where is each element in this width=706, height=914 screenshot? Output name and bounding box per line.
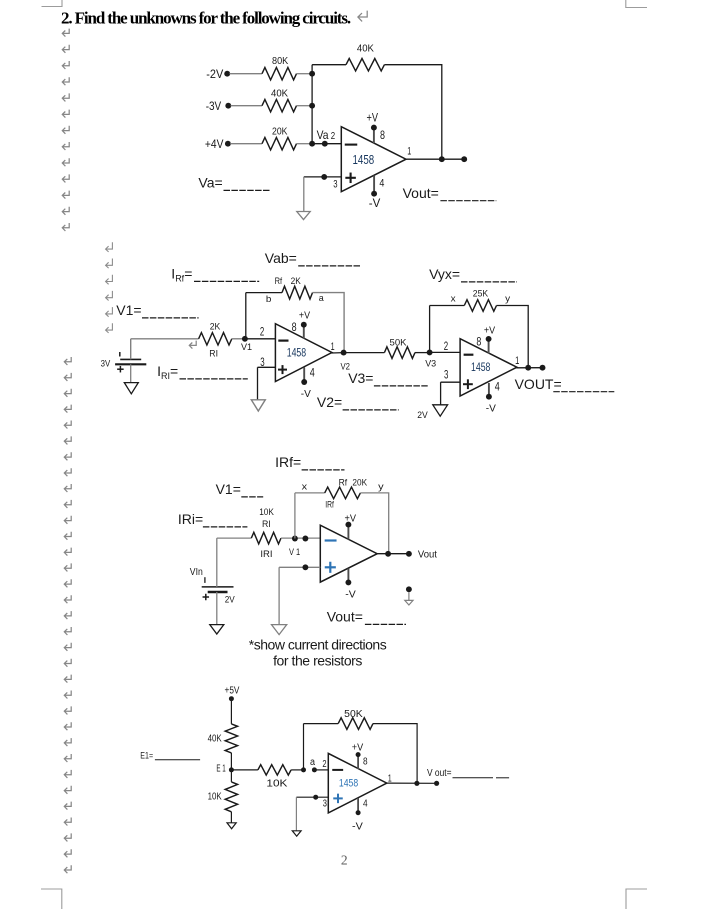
wire Vin to RI circuit3 bbox=[217, 537, 252, 539]
node feedback junction U3 bbox=[525, 365, 531, 371]
svg-text:80K: 80K bbox=[272, 56, 288, 67]
svg-text:V3=: V3= bbox=[348, 370, 373, 386]
svg-text:-3V: -3V bbox=[206, 99, 222, 113]
wire output U2 to V2 bbox=[332, 352, 344, 354]
page corner mark bottom-right bbox=[626, 889, 647, 909]
resistor R3 20K bbox=[262, 138, 297, 150]
ground pin3 U5 bbox=[292, 831, 301, 836]
svg-text:y: y bbox=[378, 481, 384, 492]
node V2 bbox=[341, 350, 347, 356]
svg-text:8: 8 bbox=[476, 337, 481, 349]
wire V2 to R 50K bbox=[344, 352, 385, 354]
wire +4V to R3 bbox=[230, 143, 262, 145]
wire pin3 U3 bbox=[441, 381, 461, 383]
wire feedback right U3 bbox=[497, 306, 529, 368]
battery Vin plus label bbox=[203, 596, 210, 598]
ground battery Vin bbox=[210, 625, 224, 634]
wire plus input circuit3 bbox=[279, 566, 320, 568]
svg-text:4: 4 bbox=[310, 368, 315, 380]
node plus input circuit3 bbox=[302, 564, 308, 570]
svg-text:VIn: VIn bbox=[190, 567, 203, 578]
page corner mark bottom-left bbox=[41, 889, 62, 909]
svg-text:-V: -V bbox=[352, 822, 363, 833]
svg-text:V1=: V1= bbox=[116, 302, 141, 318]
node +5V terminal bbox=[229, 696, 234, 701]
wire E1 to R4 10K bbox=[231, 769, 258, 771]
svg-text:1458: 1458 bbox=[287, 348, 307, 360]
svg-text:x: x bbox=[302, 481, 308, 492]
svg-text:2: 2 bbox=[341, 853, 348, 868]
node junction row2 bbox=[309, 103, 315, 109]
svg-text:+V: +V bbox=[367, 110, 379, 124]
node -2V input terminal bbox=[224, 71, 230, 77]
op-amp U4 bbox=[320, 525, 377, 582]
node +4V input terminal bbox=[225, 141, 231, 147]
pin 8 +V stub U1 bbox=[373, 129, 375, 143]
resistor R1 80K bbox=[262, 68, 297, 80]
svg-text:2: 2 bbox=[331, 130, 336, 142]
ground plus input circuit3 bbox=[272, 625, 287, 635]
resistor 40K circuit4 bbox=[225, 724, 237, 753]
svg-text:3: 3 bbox=[444, 370, 448, 382]
op-amp U4 minus sign bbox=[325, 539, 337, 541]
node +V pin8 U1 bbox=[371, 125, 377, 131]
node +V U5 bbox=[356, 752, 361, 757]
wire feedback right circuit3 bbox=[360, 493, 388, 554]
svg-text:V1=: V1= bbox=[216, 481, 241, 497]
node -V U5 bbox=[356, 810, 361, 815]
svg-text:2. Find the unknowns for the f: 2. Find the unknowns for the following c… bbox=[61, 8, 351, 27]
node output terminal circuit4 bbox=[434, 781, 439, 786]
op-amp U5 plus sign bbox=[333, 797, 343, 799]
pin 4 -V stub U2 bbox=[303, 368, 305, 381]
title paragraph mark bbox=[358, 11, 367, 22]
svg-text:1458: 1458 bbox=[339, 778, 358, 790]
op-amp U5 1458 bbox=[328, 753, 387, 813]
node +V U4 bbox=[345, 522, 351, 528]
node -V pin4 U3 bbox=[486, 394, 492, 400]
svg-text:b: b bbox=[266, 294, 272, 305]
svg-text:50K: 50K bbox=[390, 338, 408, 349]
node a junction bbox=[301, 767, 306, 772]
svg-text:IRf=: IRf= bbox=[171, 266, 192, 284]
svg-text:8: 8 bbox=[292, 322, 297, 334]
node -V U4 bbox=[345, 579, 351, 585]
svg-text:VOUT=: VOUT= bbox=[515, 376, 562, 392]
op-amp U2 plus sign bbox=[278, 369, 287, 371]
left margin paragraph marks upper bbox=[62, 29, 69, 231]
resistor 50K circuit2 bbox=[384, 347, 415, 359]
node pin3 U1 bbox=[321, 174, 327, 180]
wire feedback top circuit4 bbox=[304, 723, 339, 725]
battery Vin current tick bbox=[204, 577, 206, 583]
node feedback junction circuit4 bbox=[414, 781, 419, 786]
wire feedback left vertical U3 bbox=[429, 306, 431, 353]
wire R1 to summing node bbox=[297, 73, 313, 75]
wire V1 to pin2 U2 bbox=[245, 338, 276, 340]
svg-text:+V: +V bbox=[345, 513, 357, 524]
wire RI to V1 circuit3 bbox=[281, 537, 320, 539]
svg-text:2V: 2V bbox=[225, 595, 236, 606]
node junction row1 bbox=[309, 71, 315, 77]
svg-text:20K: 20K bbox=[272, 127, 288, 138]
pin 4 -V stub U5 bbox=[357, 798, 359, 812]
battery plus label bbox=[117, 368, 124, 370]
svg-text:Vout=: Vout= bbox=[327, 609, 363, 625]
wire battery bottom bbox=[130, 364, 132, 382]
op-amp U2 minus sign bbox=[278, 340, 288, 342]
svg-text:3V: 3V bbox=[101, 359, 111, 370]
svg-text:40K: 40K bbox=[357, 44, 374, 55]
op-amp U2 1458 bbox=[275, 324, 332, 382]
svg-text:2: 2 bbox=[322, 758, 326, 770]
op-amp U3 1458 bbox=[460, 339, 517, 396]
op-amp U1 minus sign bbox=[345, 144, 358, 146]
svg-text:Vyx=: Vyx= bbox=[429, 266, 460, 282]
resistor R4 10K circuit4 bbox=[258, 765, 291, 775]
ground pin3 U2 bbox=[251, 400, 265, 411]
wire pin3 U5 to ground bbox=[295, 797, 297, 831]
svg-text:2K: 2K bbox=[291, 276, 302, 287]
svg-text:+4V: +4V bbox=[205, 137, 224, 151]
node pin3 U5 bbox=[313, 795, 318, 800]
svg-text:Rf: Rf bbox=[339, 478, 348, 489]
svg-text:-V: -V bbox=[301, 389, 311, 400]
svg-text:Vab=: Vab= bbox=[265, 250, 297, 266]
op-amp U5 minus sign bbox=[332, 769, 343, 771]
wire battery to RI bbox=[131, 338, 199, 340]
inline paragraph mark near RI bbox=[189, 341, 196, 349]
wire E1 to R 10K vertical bbox=[230, 770, 232, 782]
wire feedback top left U2 bbox=[246, 292, 282, 294]
svg-text:IRI: IRI bbox=[260, 549, 272, 560]
battery current tick I bbox=[119, 352, 121, 357]
svg-text:20K: 20K bbox=[352, 478, 367, 489]
svg-text:RI: RI bbox=[262, 519, 271, 530]
svg-text:25K: 25K bbox=[473, 288, 489, 299]
wire feedback top left U3 bbox=[430, 305, 465, 307]
wire feedback left vertical U2 bbox=[245, 293, 247, 339]
op-amp U3 plus sign bbox=[463, 383, 473, 385]
page corner mark top-left bbox=[42, 0, 63, 7]
svg-text:+V: +V bbox=[484, 325, 495, 336]
svg-text:2: 2 bbox=[444, 341, 448, 353]
node a pin dot bbox=[312, 767, 317, 772]
svg-text:IRf: IRf bbox=[325, 500, 334, 511]
svg-text:-V: -V bbox=[486, 403, 496, 414]
svg-text:4: 4 bbox=[495, 381, 500, 393]
battery 3V bbox=[115, 359, 146, 364]
wire pin3 U2 bbox=[258, 366, 276, 368]
resistor RI 2K bbox=[199, 333, 232, 345]
svg-text:1458: 1458 bbox=[353, 152, 375, 167]
svg-text:3: 3 bbox=[323, 797, 327, 809]
node output terminal circuit3 bbox=[406, 551, 412, 557]
svg-text:Vout=: Vout= bbox=[403, 185, 439, 201]
svg-text:RI: RI bbox=[209, 349, 218, 360]
wire -3V to R2 bbox=[231, 105, 262, 107]
wire RI to V1 bbox=[232, 338, 245, 340]
resistor 50K feedback circuit4 bbox=[338, 718, 373, 730]
svg-text:y: y bbox=[505, 293, 510, 304]
blank line E1 bbox=[155, 759, 200, 761]
wire battery top bbox=[130, 339, 132, 360]
op-amp U1 1458 bbox=[341, 127, 406, 192]
node -V pin4 U2 bbox=[301, 379, 307, 385]
svg-text:+V: +V bbox=[352, 741, 363, 753]
page corner mark top-right bbox=[626, 0, 647, 8]
svg-text:8: 8 bbox=[363, 755, 368, 767]
pin 8 +V stub U5 bbox=[357, 756, 359, 769]
svg-text:Va: Va bbox=[317, 128, 329, 142]
svg-text:IRI=: IRI= bbox=[157, 363, 178, 381]
wire 10K to ground circuit4 bbox=[230, 812, 232, 823]
svg-text:V out=: V out= bbox=[427, 767, 452, 779]
wire output U1 bbox=[406, 158, 464, 160]
wire R4 to node a bbox=[291, 769, 303, 771]
pin 4 -V stub U3 bbox=[488, 383, 490, 395]
svg-text:-V: -V bbox=[345, 589, 356, 600]
wire feedback top left circuit3 bbox=[295, 492, 325, 494]
wire battery Vin bottom bbox=[216, 592, 218, 625]
wire Va to op-amp pin2 bbox=[312, 143, 341, 145]
op-amp U4 plus sign bbox=[325, 566, 336, 568]
wire output circuit3 bbox=[377, 553, 409, 555]
wire summing bus vertical bbox=[311, 65, 313, 144]
node +V pin8 U3 bbox=[486, 336, 492, 342]
node V1 junction circuit3 bbox=[292, 536, 298, 542]
svg-text:E1=: E1= bbox=[140, 751, 153, 762]
ground circuit1 bbox=[297, 212, 310, 220]
node +V pin8 U2 bbox=[301, 322, 307, 328]
svg-text:4: 4 bbox=[363, 797, 368, 809]
node -3V input terminal bbox=[225, 103, 231, 109]
resistor Rf 2K feedback U2 bbox=[282, 286, 313, 299]
svg-text:V1: V1 bbox=[241, 342, 252, 353]
svg-text:IRf=: IRf= bbox=[275, 454, 301, 470]
svg-text:V 1: V 1 bbox=[289, 547, 300, 558]
blank line Vout circuit4 bbox=[453, 777, 510, 779]
wire feedback right U2 bbox=[313, 293, 345, 353]
node Va pin2 dot bbox=[322, 141, 328, 147]
wire node a to pin2 U5 bbox=[314, 769, 328, 771]
battery Vin 2V bbox=[202, 587, 234, 592]
node output terminal U1 bbox=[461, 156, 467, 162]
node E1 bbox=[229, 767, 234, 772]
svg-text:3: 3 bbox=[333, 179, 337, 191]
wire pin3 U3 down bbox=[440, 382, 442, 405]
node V1 bbox=[242, 336, 248, 342]
wire R3 to node Va bbox=[297, 143, 313, 145]
wire feedback left vertical circuit3 bbox=[294, 493, 296, 539]
svg-text:Rf: Rf bbox=[275, 276, 283, 287]
source 2V symbol bbox=[433, 405, 448, 416]
node feedback-output junction bbox=[439, 156, 445, 162]
wire output U5 bbox=[387, 782, 437, 784]
floating reference arrow circuit3 bbox=[405, 592, 413, 605]
wire feedback to output vertical bbox=[384, 65, 441, 160]
resistor R2 40K bbox=[262, 100, 297, 112]
svg-text:10K: 10K bbox=[266, 779, 287, 790]
svg-text:a: a bbox=[319, 293, 325, 304]
wire +5V to R 40K bbox=[230, 699, 232, 724]
svg-text:*show current directions: *show current directions bbox=[249, 637, 387, 653]
node Va junction bbox=[309, 141, 315, 147]
node output terminal U3 bbox=[540, 365, 546, 371]
svg-text:+5V: +5V bbox=[225, 685, 240, 696]
pin 4 -V stub U1 bbox=[373, 175, 375, 192]
wire V3 to pin2 U3 bbox=[430, 351, 460, 353]
svg-text:1: 1 bbox=[331, 341, 335, 353]
node V3 bbox=[427, 349, 433, 355]
svg-text:40K: 40K bbox=[271, 89, 288, 100]
svg-text:V3: V3 bbox=[425, 358, 436, 369]
svg-text:+V: +V bbox=[299, 311, 310, 322]
op-amp U1 plus sign bbox=[345, 177, 356, 179]
svg-text:for the resistors: for the resistors bbox=[273, 653, 362, 669]
svg-text:10K: 10K bbox=[259, 507, 274, 518]
svg-text:x: x bbox=[451, 293, 456, 304]
svg-text:E 1: E 1 bbox=[216, 763, 226, 774]
svg-text:1: 1 bbox=[515, 355, 519, 367]
svg-text:10K: 10K bbox=[208, 792, 222, 803]
pin 8 +V stub U3 bbox=[488, 340, 490, 353]
svg-text:40K: 40K bbox=[208, 734, 222, 745]
svg-text:3: 3 bbox=[260, 357, 264, 369]
wire R2 to summing node bbox=[297, 105, 313, 107]
wire output U3 bbox=[516, 367, 542, 369]
svg-text:V2=: V2= bbox=[317, 394, 342, 410]
wire 40K to node E1 bbox=[230, 753, 232, 770]
svg-text:2: 2 bbox=[260, 326, 264, 338]
ground battery 3V bbox=[124, 383, 138, 394]
svg-text:-V: -V bbox=[369, 198, 381, 210]
svg-text:1: 1 bbox=[407, 146, 411, 158]
resistor 25K feedback U3 bbox=[464, 300, 496, 312]
wire feedback top bbox=[312, 64, 346, 66]
floating reference node circuit3 bbox=[406, 586, 412, 592]
wire plus input to ground circuit3 bbox=[278, 567, 280, 624]
indented paragraph marks bbox=[106, 242, 113, 333]
wire 50K to V3 bbox=[415, 352, 430, 354]
wire pin3 U2 to ground bbox=[257, 367, 259, 400]
resistor Rf 20K circuit3 bbox=[325, 487, 361, 499]
wire battery Vin top bbox=[216, 538, 218, 587]
wire -2V to R1 bbox=[230, 73, 263, 75]
node V1 pin dot circuit3 bbox=[302, 536, 308, 542]
node -V pin4 U1 bbox=[371, 191, 377, 197]
left margin paragraph marks lower bbox=[64, 357, 71, 873]
wire feedback right circuit4 bbox=[373, 724, 417, 784]
svg-text:Va=: Va= bbox=[198, 175, 222, 191]
wire feedback left vertical circuit4 bbox=[303, 724, 305, 770]
pin -V stub U4 bbox=[347, 569, 349, 582]
resistor 10K divider circuit4 bbox=[225, 782, 237, 812]
svg-text:8: 8 bbox=[380, 128, 385, 142]
svg-text:2V: 2V bbox=[417, 410, 428, 421]
pin 8 +V stub U2 bbox=[303, 326, 305, 339]
pin +V stub U4 bbox=[347, 526, 349, 540]
svg-text:4: 4 bbox=[379, 177, 384, 189]
resistor RI 10K circuit3 bbox=[251, 532, 281, 544]
svg-text:Vout: Vout bbox=[418, 550, 437, 561]
wire pin3 U5 bbox=[296, 796, 328, 798]
node feedback junction circuit3 bbox=[385, 551, 391, 557]
ground divider circuit4 bbox=[227, 823, 236, 829]
svg-text:1458: 1458 bbox=[471, 362, 490, 374]
wire pin3 U1 bbox=[304, 176, 342, 178]
wire pin3 to ground bbox=[303, 177, 305, 212]
op-amp U3 minus sign bbox=[464, 354, 474, 356]
svg-text:50K: 50K bbox=[344, 709, 363, 720]
svg-text:a: a bbox=[310, 757, 315, 768]
resistor Rf 40K feedback bbox=[346, 59, 384, 71]
svg-text:2K: 2K bbox=[210, 322, 221, 333]
svg-text:-2V: -2V bbox=[206, 67, 223, 81]
svg-text:IRi=: IRi= bbox=[178, 511, 203, 527]
